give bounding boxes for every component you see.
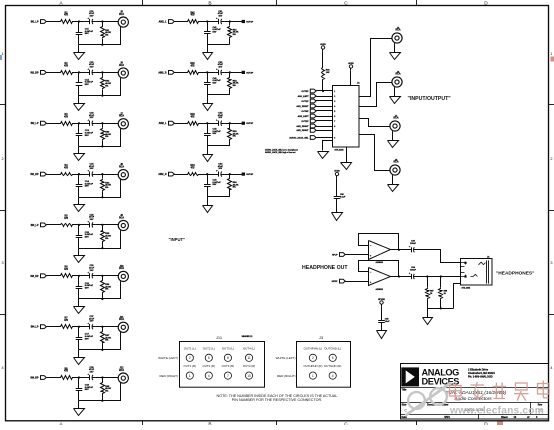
headphone jack mid pins bbox=[460, 266, 464, 268]
svg-text:1: 1 bbox=[312, 374, 314, 378]
connector J8 RCA jack bbox=[118, 170, 128, 180]
svg-text:5%: 5% bbox=[233, 85, 236, 87]
capacitor C44 0.047uF shunt bbox=[207, 174, 209, 184]
svg-text:10V: 10V bbox=[90, 168, 94, 170]
op-amp U2 headphone driver bbox=[369, 241, 391, 260]
svg-text:OUT4P: OUT4P bbox=[246, 173, 254, 176]
svg-text:50V: 50V bbox=[85, 338, 89, 340]
svg-text:50V: 50V bbox=[85, 186, 89, 188]
node R67 tap bbox=[426, 275, 428, 277]
connector J11 RCA jack bbox=[118, 322, 128, 332]
Analog Devices logo bbox=[401, 367, 419, 386]
wire J4 pin to J8 bbox=[359, 135, 390, 171]
wire R41 to node bbox=[200, 21, 216, 23]
resistor R2 475 bbox=[59, 71, 74, 75]
wire resistor bottoms rail bbox=[427, 300, 429, 309]
capacitor C22 47uF series bbox=[87, 72, 90, 74]
svg-text:RCA: RCA bbox=[119, 318, 124, 321]
capacitor C21 47uF series bbox=[87, 21, 90, 23]
svg-text:8: 8 bbox=[227, 356, 229, 360]
svg-text:"INPUT/OUTPUT": "INPUT/OUTPUT" bbox=[408, 96, 452, 102]
svg-text:50V: 50V bbox=[213, 184, 217, 186]
wire OUT2P to J4 bbox=[316, 120, 333, 122]
node junction A3 bbox=[78, 122, 80, 124]
svg-text:16: 16 bbox=[430, 293, 432, 295]
capacitor C24 47uF series bbox=[87, 174, 90, 176]
ground row 1 bbox=[78, 45, 80, 53]
wire ground rail row 43 bbox=[207, 145, 230, 147]
node junction C3 bbox=[206, 122, 208, 124]
capacitor C11 0.047uF shunt bbox=[78, 22, 80, 33]
resistor R32 49.9K shunt bbox=[102, 72, 104, 76]
wire C94 to jack ring bbox=[417, 276, 460, 278]
svg-text:7: 7 bbox=[334, 121, 335, 123]
wire OUT3P to J4 bbox=[316, 90, 333, 92]
ground headphone bbox=[427, 308, 429, 317]
svg-text:10V: 10V bbox=[90, 219, 94, 221]
node junction A2 bbox=[78, 71, 80, 73]
capacitor C95 10uF bbox=[381, 316, 383, 320]
wire R66 to pin row bbox=[322, 81, 324, 92]
svg-text:RCA: RCA bbox=[119, 369, 124, 372]
connector J6 RCA jack bbox=[392, 77, 402, 87]
capacitor C96 0.1uF bbox=[336, 192, 338, 197]
watermark red mark top right bbox=[551, 57, 554, 62]
wire AN1_RIGHT to J4 bbox=[316, 106, 333, 108]
capacitor C93 100uF bbox=[408, 249, 411, 251]
svg-text:OUT3 (R): OUT3 (R) bbox=[222, 364, 235, 368]
svg-text:D: D bbox=[484, 421, 488, 425]
node junction C4 bbox=[206, 173, 208, 175]
svg-text:1: 1 bbox=[550, 52, 552, 56]
svg-text:AVDD: AVDD bbox=[334, 169, 340, 172]
svg-text:10: 10 bbox=[247, 374, 251, 378]
wire R44 to node bbox=[200, 174, 216, 176]
svg-text:50V: 50V bbox=[85, 287, 89, 289]
wire ground rail row 4 bbox=[79, 197, 121, 199]
svg-text:4: 4 bbox=[332, 374, 334, 378]
svg-text:PIN NUMBER FOR THE RESPECTIVE: PIN NUMBER FOR THE RESPECTIVE CONNECTOR. bbox=[232, 398, 322, 402]
ground J4 left bbox=[322, 150, 324, 153]
wire feedback U3 bbox=[359, 261, 399, 277]
svg-text:4: 4 bbox=[2, 366, 4, 370]
svg-text:AN2_RIGHT: AN2_RIGHT bbox=[296, 129, 309, 132]
capacitor C25 47uF series bbox=[87, 224, 90, 226]
svg-text:10V: 10V bbox=[218, 117, 222, 119]
svg-text:B: B bbox=[208, 0, 211, 6]
wire C51 to output bbox=[224, 21, 241, 23]
svg-text:C: C bbox=[344, 0, 348, 6]
svg-text:STX-4335: STX-4335 bbox=[335, 149, 345, 152]
svg-text:AVDD: AVDD bbox=[320, 43, 326, 46]
svg-text:100uF: 100uF bbox=[410, 243, 417, 245]
ground row 4 bbox=[78, 197, 80, 205]
svg-text:RCA: RCA bbox=[396, 73, 401, 76]
node junction D1 bbox=[229, 20, 231, 22]
node junction D4 bbox=[229, 173, 231, 175]
svg-text:OUT2 (R): OUT2 (R) bbox=[203, 364, 216, 368]
svg-text:10V: 10V bbox=[218, 66, 222, 68]
connector J7 RCA jack bbox=[390, 121, 400, 131]
wire J6 ground pin bbox=[394, 87, 396, 96]
ground row 43 bbox=[207, 146, 209, 155]
ground row 3 bbox=[78, 146, 80, 154]
svg-text:AN1_RIGHT: AN1_RIGHT bbox=[296, 105, 309, 108]
svg-text:4: 4 bbox=[550, 366, 552, 370]
resistor R52 49.9K shunt bbox=[229, 72, 231, 76]
svg-text:Size: Size bbox=[402, 403, 407, 406]
wire C27 to jack bbox=[96, 326, 119, 328]
resistor R37 49.9K shunt bbox=[102, 327, 104, 331]
resistor R8 475 bbox=[59, 376, 74, 380]
wire ground rail row 3 bbox=[79, 146, 121, 148]
node junction B7 bbox=[101, 326, 103, 328]
svg-text:www.elecfans.com: www.elecfans.com bbox=[449, 406, 544, 417]
svg-text:WHITE (LEFT): WHITE (LEFT) bbox=[276, 356, 296, 360]
wire R7 to node bbox=[73, 326, 86, 328]
capacitor C52 47uF series bbox=[215, 72, 218, 74]
svg-text:AUDIO_JACK_SEL: AUDIO_JACK_SEL bbox=[289, 136, 309, 139]
svg-text:RED (RIGHT): RED (RIGHT) bbox=[160, 374, 179, 378]
power HPVDD bbox=[380, 301, 383, 304]
power AVDD connector bbox=[349, 65, 352, 68]
svg-text:B: B bbox=[208, 421, 211, 425]
wire R4 to node bbox=[73, 174, 86, 176]
ground J4 bottom bbox=[346, 161, 348, 164]
resistor R54 49.9K shunt bbox=[229, 174, 231, 178]
resistor R42 475 bbox=[187, 71, 200, 75]
wire J7 ground pin bbox=[392, 131, 394, 140]
svg-text:50V: 50V bbox=[213, 82, 217, 84]
wire R43 to node bbox=[200, 123, 216, 125]
node R68 tap bbox=[440, 275, 442, 277]
resistor R4 475 bbox=[59, 173, 74, 176]
wire R5 to node bbox=[73, 224, 86, 226]
wire C52 to output bbox=[224, 72, 241, 74]
svg-text:10K: 10K bbox=[326, 72, 330, 74]
svg-text:5%: 5% bbox=[105, 238, 108, 240]
svg-text:6: 6 bbox=[334, 116, 335, 118]
svg-text:10V: 10V bbox=[218, 16, 222, 18]
svg-text:OUTHPHN (R): OUTHPHN (R) bbox=[303, 364, 322, 368]
svg-text:STX-4335: STX-4335 bbox=[462, 287, 471, 290]
svg-text:10V: 10V bbox=[90, 270, 94, 272]
svg-text:"HEADPHONES": "HEADPHONES" bbox=[496, 270, 534, 276]
svg-text:OUT2P: OUT2P bbox=[246, 72, 254, 74]
connector J5 RCA jack bbox=[392, 33, 402, 43]
resistor R35 49.9K shunt bbox=[102, 225, 104, 229]
op-amp U3 headphone driver bbox=[369, 268, 391, 286]
wire C23 to jack bbox=[96, 123, 119, 125]
node OUT3P bbox=[242, 122, 245, 125]
wire C95 to ground bbox=[381, 327, 383, 331]
resistor R31 49.9K shunt bbox=[102, 22, 104, 26]
node junction C1 bbox=[206, 20, 208, 22]
svg-text:Title: Title bbox=[402, 389, 408, 392]
svg-text:5%: 5% bbox=[105, 289, 108, 291]
svg-text:10V: 10V bbox=[90, 321, 94, 323]
ground row 44 bbox=[207, 197, 209, 206]
node junction D3 bbox=[229, 122, 231, 124]
ground row 41 bbox=[207, 44, 209, 53]
svg-text:2: 2 bbox=[189, 356, 191, 360]
svg-text:5%: 5% bbox=[105, 390, 108, 392]
wire R1 to node bbox=[73, 21, 86, 23]
wire ground rail row 42 bbox=[207, 94, 230, 96]
capacitor C43 0.047uF shunt bbox=[207, 123, 209, 133]
wire C96 to ground bbox=[336, 204, 338, 213]
resistor R43 475 bbox=[187, 122, 200, 126]
wire J5 ground pin bbox=[394, 43, 396, 52]
svg-text:RCA: RCA bbox=[394, 117, 399, 120]
ground row 2 bbox=[78, 96, 80, 104]
wire ground rail row 41 bbox=[207, 44, 230, 46]
wire R42 to node bbox=[200, 72, 216, 74]
capacitor C26 47uF series bbox=[87, 275, 90, 277]
watermark chinese characters bbox=[450, 381, 550, 401]
svg-text:9: 9 bbox=[334, 137, 335, 139]
node junction B1 bbox=[101, 20, 103, 22]
ground row 6 bbox=[78, 299, 80, 307]
watermark blue mark left bbox=[0, 55, 2, 60]
svg-text:10V: 10V bbox=[90, 372, 94, 374]
svg-text:7: 7 bbox=[227, 374, 229, 378]
node junction B2 bbox=[101, 71, 103, 73]
resistor R38 49.9K shunt bbox=[102, 378, 104, 382]
svg-text:IN2_LP: IN2_LP bbox=[31, 123, 39, 125]
svg-text:RCA: RCA bbox=[394, 161, 399, 164]
svg-text:OUT3 (L): OUT3 (L) bbox=[222, 346, 234, 350]
svg-text:OUTGND (L): OUTGND (L) bbox=[324, 346, 341, 350]
svg-text:2: 2 bbox=[312, 356, 314, 360]
node junction A7 bbox=[78, 326, 80, 328]
resistor R1 475 bbox=[59, 20, 74, 24]
wire AIN2_L to R43 bbox=[174, 123, 186, 125]
wire J4 pin to J7 bbox=[359, 119, 390, 127]
svg-text:AIN1_L: AIN1_L bbox=[159, 21, 168, 24]
svg-text:OUT1P: OUT1P bbox=[246, 22, 254, 24]
svg-text:D: D bbox=[484, 0, 488, 6]
resistor R6 475 bbox=[59, 274, 74, 278]
wire U2 output bbox=[391, 249, 408, 251]
wire C54 to output bbox=[224, 174, 241, 176]
svg-text:4: 4 bbox=[334, 105, 335, 108]
power AVDD decouple bbox=[335, 172, 338, 175]
svg-text:RCA: RCA bbox=[119, 267, 124, 270]
title block frame bbox=[401, 364, 549, 420]
svg-text:RCA: RCA bbox=[119, 64, 124, 67]
svg-text:AN1_LEFT: AN1_LEFT bbox=[298, 95, 310, 98]
wire AIN1_L to R41 bbox=[174, 21, 186, 23]
node junction A1 bbox=[78, 20, 80, 22]
connector J2 headphone jack bbox=[461, 259, 493, 286]
svg-text:IN1_RP: IN1_RP bbox=[30, 72, 39, 74]
svg-text:5%: 5% bbox=[233, 187, 236, 189]
wire AN1_LEFT to J4 bbox=[316, 96, 333, 98]
svg-text:5%: 5% bbox=[105, 340, 108, 342]
svg-text:RED (RIGHT): RED (RIGHT) bbox=[277, 374, 296, 378]
svg-text:2: 2 bbox=[2, 157, 4, 161]
wire AIN1_R to R42 bbox=[174, 72, 186, 74]
capacitor C42 0.047uF shunt bbox=[207, 72, 209, 82]
capacitor C41 0.047uF shunt bbox=[207, 22, 209, 32]
wire AVDD to R66 bbox=[322, 52, 324, 67]
svg-text:RCA: RCA bbox=[119, 13, 124, 16]
connector J10 RCA jack bbox=[118, 271, 128, 281]
wire AIN2_R to R44 bbox=[174, 174, 186, 176]
connector J8 RCA jack bbox=[390, 165, 400, 175]
wire J8 ground pin bbox=[392, 175, 394, 184]
svg-text:IN4_LP: IN4_LP bbox=[31, 326, 39, 329]
wire C26 to jack bbox=[96, 275, 119, 277]
capacitor C16 0.047uF shunt bbox=[78, 276, 80, 287]
svg-text:AUDIO_JACK_SEL high = line out: AUDIO_JACK_SEL high = line out bbox=[265, 151, 296, 154]
wire ground rail row 2 bbox=[79, 95, 121, 97]
wire ground rail row 44 bbox=[207, 196, 230, 198]
svg-text:1: 1 bbox=[334, 91, 335, 93]
svg-text:2: 2 bbox=[334, 96, 335, 98]
svg-text:AN2_LEFT: AN2_LEFT bbox=[298, 115, 310, 118]
power AVDD bbox=[321, 46, 324, 49]
wire J4 pin to J5 bbox=[359, 39, 392, 97]
node junction B5 bbox=[101, 224, 103, 226]
svg-text:50V: 50V bbox=[85, 84, 89, 86]
svg-text:OUT4P: OUT4P bbox=[301, 110, 309, 113]
wire ground rail row 5 bbox=[79, 248, 121, 250]
node junction B6 bbox=[101, 275, 103, 277]
resistor R68 16ohm bbox=[440, 277, 442, 288]
wire AN2_RIGHT to J4 bbox=[316, 126, 333, 128]
headphone jack ring contact bbox=[461, 275, 466, 277]
svg-text:5: 5 bbox=[208, 356, 210, 360]
svg-text:IN3_LP: IN3_LP bbox=[31, 225, 39, 227]
ground C95 bbox=[381, 330, 383, 333]
wire IN2_RP to R4 bbox=[46, 174, 59, 176]
svg-text:1: 1 bbox=[189, 374, 191, 378]
wire AVDD to C96 bbox=[336, 178, 338, 191]
svg-text:10uF: 10uF bbox=[385, 321, 390, 323]
svg-text:IN1_LP: IN1_LP bbox=[31, 22, 39, 24]
connector J12 RCA jack bbox=[118, 373, 128, 383]
svg-text:HEADER 12: HEADER 12 bbox=[242, 335, 253, 338]
svg-text:C: C bbox=[344, 421, 348, 425]
ground row 8 bbox=[78, 401, 80, 409]
wire C28 to jack bbox=[96, 377, 119, 379]
wire C25 to jack bbox=[96, 224, 119, 226]
ground row 42 bbox=[207, 95, 209, 104]
wire R8 to node bbox=[73, 377, 86, 379]
node junction B8 bbox=[101, 376, 103, 378]
svg-text:RCA: RCA bbox=[119, 115, 124, 118]
svg-text:0.1uF: 0.1uF bbox=[340, 196, 346, 198]
svg-text:50V: 50V bbox=[85, 33, 89, 35]
resistor R41 475 bbox=[187, 20, 200, 24]
wire IN1_LP to R1 bbox=[46, 21, 59, 23]
wire C93 to jack tip bbox=[417, 250, 461, 263]
svg-text:5%: 5% bbox=[233, 34, 236, 36]
wire IN4_RP to R8 bbox=[46, 377, 59, 379]
resistor R33 49.9K shunt bbox=[102, 123, 104, 127]
svg-text:5: 5 bbox=[334, 111, 335, 113]
watermark red mark bottom bbox=[497, 422, 503, 426]
svg-text:OUT2P: OUT2P bbox=[301, 121, 309, 123]
wire IN3_LP to R5 bbox=[46, 224, 59, 226]
svg-text:OUT1P: OUT1P bbox=[301, 101, 309, 103]
svg-text:AD8592: AD8592 bbox=[376, 261, 384, 264]
node junction A4 bbox=[78, 173, 80, 175]
svg-text:AIN1_R: AIN1_R bbox=[158, 71, 167, 74]
wire OUT1P to J4 bbox=[316, 100, 333, 102]
svg-text:OUT1 (R): OUT1 (R) bbox=[184, 364, 197, 368]
headphone jack tip contact bbox=[461, 263, 466, 265]
ground C96 bbox=[336, 212, 338, 215]
connector J9 RCA jack bbox=[118, 220, 128, 230]
ground J8 bbox=[392, 183, 394, 186]
capacitor C51 47uF series bbox=[215, 21, 218, 23]
svg-text:AD8592: AD8592 bbox=[376, 288, 384, 291]
capacitor C14 0.047uF shunt bbox=[78, 174, 80, 185]
svg-text:5%: 5% bbox=[105, 136, 108, 138]
resistor R7 475 bbox=[59, 325, 74, 329]
wire IN4_LP to R7 bbox=[46, 326, 59, 328]
svg-text:50V: 50V bbox=[85, 237, 89, 239]
wire feedback U2 bbox=[359, 234, 399, 250]
svg-text:4: 4 bbox=[208, 374, 210, 378]
svg-text:5%: 5% bbox=[105, 34, 108, 36]
connector J4 audio jack box bbox=[333, 86, 360, 148]
resistor R5 475 bbox=[59, 224, 74, 227]
svg-text:IN3_RP: IN3_RP bbox=[30, 276, 39, 278]
svg-text:OUT4 (L): OUT4 (L) bbox=[243, 346, 255, 350]
watermark stamp circles bbox=[408, 392, 425, 409]
svg-text:5%: 5% bbox=[105, 187, 108, 189]
wire ground rail row 8 bbox=[79, 400, 121, 402]
node junction D2 bbox=[229, 71, 231, 73]
wire J4 bottom pin bbox=[346, 147, 348, 162]
svg-text:10V: 10V bbox=[218, 168, 222, 170]
svg-text:3: 3 bbox=[2, 261, 4, 265]
node junction A5 bbox=[78, 224, 80, 226]
svg-text:AIN2_R: AIN2_R bbox=[158, 173, 167, 176]
capacitor C94 100uF bbox=[408, 276, 411, 278]
node OUT4P bbox=[242, 173, 245, 176]
svg-text:WHITE (LEFT): WHITE (LEFT) bbox=[158, 356, 178, 360]
resistor R51 49.9K shunt bbox=[229, 22, 231, 26]
capacitor C12 0.047uF shunt bbox=[78, 72, 80, 83]
svg-text:"INPUT": "INPUT" bbox=[169, 237, 186, 242]
wire AN2_LEFT to J4 bbox=[316, 116, 333, 118]
svg-text:50V: 50V bbox=[85, 135, 89, 137]
node junction B3 bbox=[101, 122, 103, 124]
wire IN2_LP to R3 bbox=[46, 123, 59, 125]
wire C21 to jack bbox=[96, 21, 119, 23]
wire AVDD to J4 top pin bbox=[350, 71, 352, 86]
svg-text:OUT2 (L): OUT2 (L) bbox=[203, 346, 215, 350]
svg-text:IN4_RP: IN4_RP bbox=[30, 377, 39, 380]
svg-text:16: 16 bbox=[444, 293, 446, 295]
resistor R66 10K pull-up bbox=[322, 67, 325, 81]
wire HPRP to op-amp bbox=[345, 281, 368, 283]
svg-text:OUT4 (R): OUT4 (R) bbox=[243, 364, 256, 368]
svg-text:5%: 5% bbox=[105, 85, 108, 87]
svg-text:11: 11 bbox=[247, 356, 251, 360]
wire J4 bottom-left to ground bbox=[323, 141, 333, 151]
svg-text:OUT3P: OUT3P bbox=[246, 123, 254, 125]
capacitor C23 47uF series bbox=[87, 123, 90, 125]
resistor R53 49.9K shunt bbox=[229, 123, 231, 127]
ground row 5 bbox=[78, 248, 80, 256]
svg-text:5%: 5% bbox=[233, 136, 236, 138]
